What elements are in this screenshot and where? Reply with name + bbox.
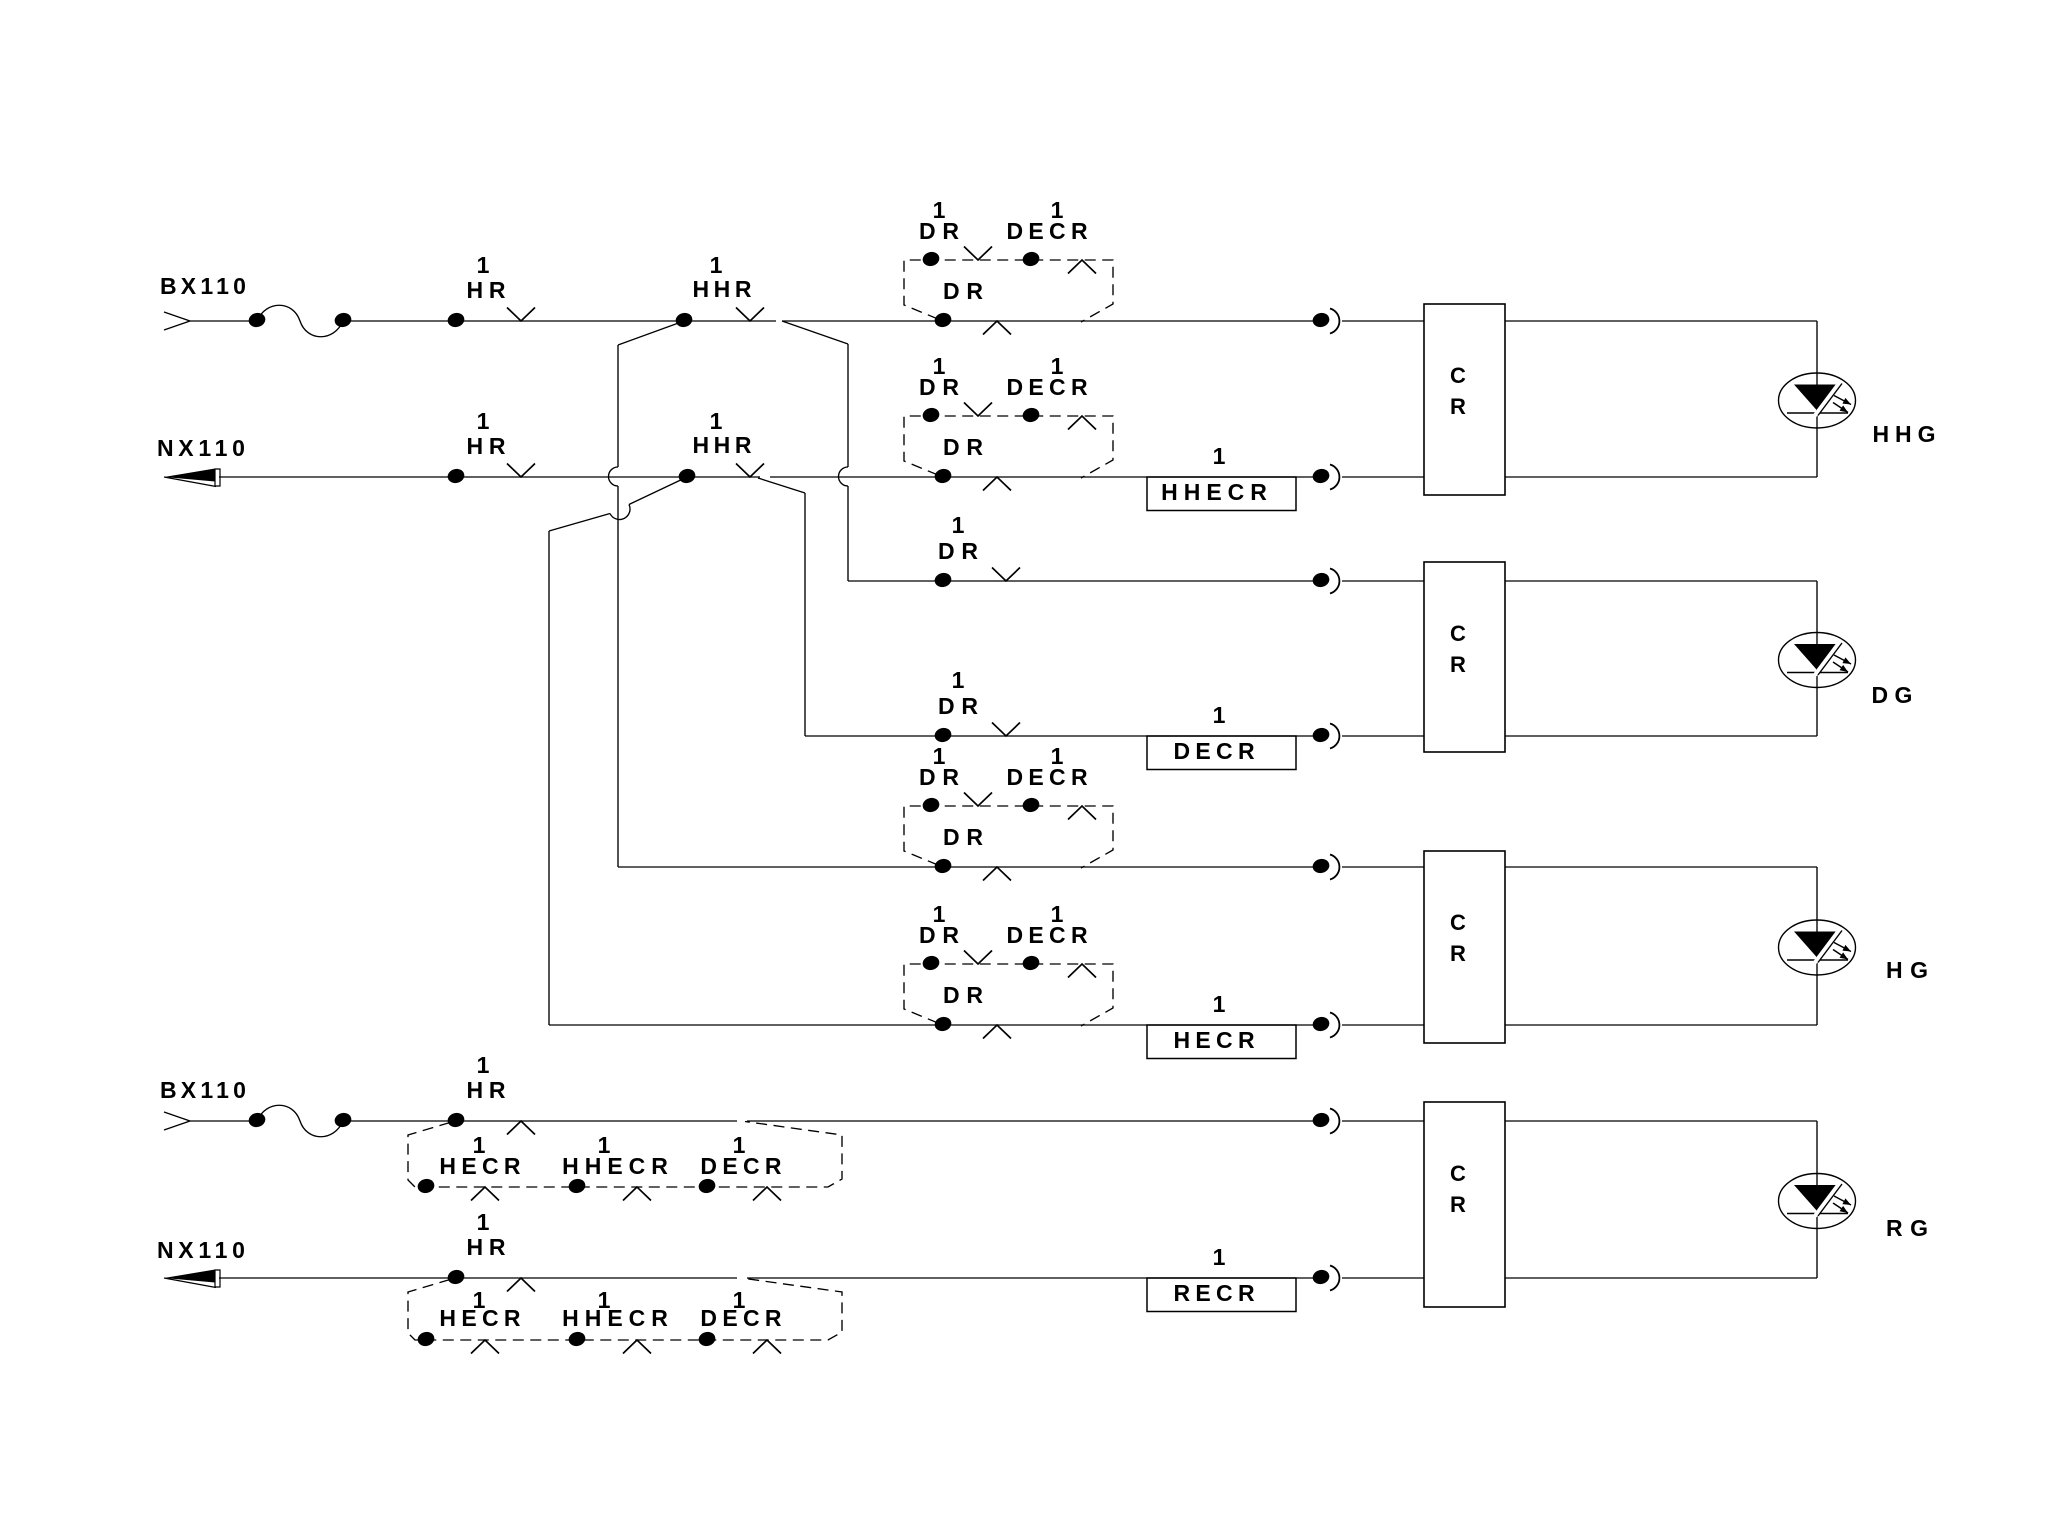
svg-text:HHR: HHR	[692, 276, 756, 302]
svg-text:DG: DG	[1871, 682, 1919, 708]
svg-text:HECR: HECR	[439, 1153, 525, 1179]
svg-text:DR: DR	[919, 764, 966, 790]
svg-text:R: R	[1450, 941, 1466, 966]
svg-text:R: R	[1450, 652, 1466, 677]
svg-text:HHECR: HHECR	[562, 1153, 674, 1179]
svg-text:C: C	[1450, 621, 1466, 646]
svg-text:DECR: DECR	[700, 1153, 786, 1179]
svg-text:C: C	[1450, 910, 1466, 935]
svg-text:C: C	[1450, 363, 1466, 388]
svg-text:DR: DR	[943, 278, 990, 304]
svg-text:HECR: HECR	[1174, 1027, 1260, 1053]
svg-text:DECR: DECR	[700, 1305, 786, 1331]
svg-text:HR: HR	[466, 1077, 511, 1103]
svg-text:R: R	[1450, 394, 1466, 419]
svg-text:NX110: NX110	[157, 1237, 250, 1263]
svg-text:1: 1	[477, 408, 490, 434]
svg-text:DR: DR	[919, 374, 966, 400]
svg-text:DR: DR	[919, 922, 966, 948]
svg-text:DR: DR	[943, 434, 990, 460]
svg-text:HECR: HECR	[439, 1305, 525, 1331]
svg-text:1: 1	[1213, 443, 1226, 469]
svg-text:1: 1	[1213, 702, 1226, 728]
svg-text:1: 1	[1213, 991, 1226, 1017]
svg-text:NX110: NX110	[157, 435, 250, 461]
svg-text:BX110: BX110	[160, 273, 250, 299]
svg-text:HR: HR	[466, 277, 511, 303]
svg-text:1: 1	[477, 252, 490, 278]
svg-text:HHR: HHR	[692, 432, 756, 458]
svg-text:DR: DR	[919, 218, 966, 244]
svg-text:1: 1	[1213, 1244, 1226, 1270]
svg-text:DR: DR	[943, 824, 990, 850]
svg-text:1: 1	[952, 512, 965, 538]
svg-text:DR: DR	[938, 693, 985, 719]
svg-text:C: C	[1450, 1161, 1466, 1186]
svg-text:1: 1	[477, 1209, 490, 1235]
svg-text:HR: HR	[466, 433, 511, 459]
svg-text:DECR: DECR	[1007, 218, 1093, 244]
svg-text:DECR: DECR	[1007, 764, 1093, 790]
svg-text:DECR: DECR	[1174, 738, 1260, 764]
svg-text:DR: DR	[938, 538, 985, 564]
svg-text:1: 1	[710, 252, 723, 278]
svg-text:RG: RG	[1886, 1215, 1936, 1241]
svg-text:1: 1	[477, 1052, 490, 1078]
svg-text:HHECR: HHECR	[562, 1305, 674, 1331]
svg-text:BX110: BX110	[160, 1077, 250, 1103]
svg-text:1: 1	[710, 408, 723, 434]
svg-text:DECR: DECR	[1007, 922, 1093, 948]
svg-text:HR: HR	[466, 1234, 511, 1260]
svg-text:HG: HG	[1886, 957, 1936, 983]
svg-text:R: R	[1450, 1192, 1466, 1217]
svg-text:HHECR: HHECR	[1161, 479, 1273, 505]
svg-text:HHG: HHG	[1872, 421, 1941, 447]
svg-text:DR: DR	[943, 982, 990, 1008]
svg-text:RECR: RECR	[1174, 1280, 1260, 1306]
svg-text:DECR: DECR	[1007, 374, 1093, 400]
svg-text:1: 1	[952, 667, 965, 693]
